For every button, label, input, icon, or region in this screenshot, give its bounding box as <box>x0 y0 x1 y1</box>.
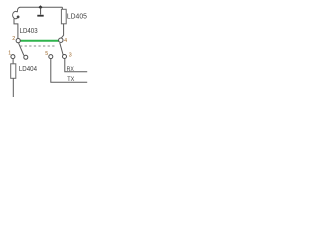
svg-text:3: 3 <box>69 52 72 58</box>
svg-text:TX: TX <box>67 76 74 83</box>
svg-text:LD403: LD403 <box>20 28 38 35</box>
svg-text:RX: RX <box>67 66 75 73</box>
svg-text:LD405: LD405 <box>67 13 87 20</box>
svg-text:4: 4 <box>64 38 67 44</box>
svg-text:1: 1 <box>8 50 11 56</box>
svg-text:5: 5 <box>45 51 48 57</box>
svg-text:2: 2 <box>12 36 15 42</box>
svg-text:LD404: LD404 <box>19 66 37 73</box>
